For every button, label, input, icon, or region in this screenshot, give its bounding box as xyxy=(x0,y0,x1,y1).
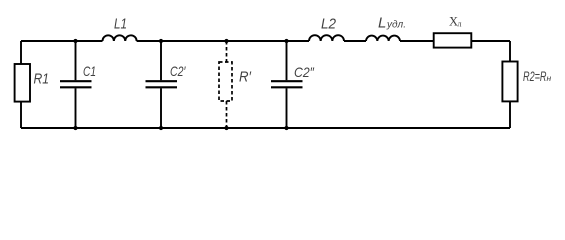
svg-text:R′: R′ xyxy=(239,68,252,85)
svg-text:L2: L2 xyxy=(321,15,337,32)
svg-text:L: L xyxy=(378,15,386,32)
svg-text:C1: C1 xyxy=(83,63,96,79)
svg-text:удл.: удл. xyxy=(386,20,406,31)
svg-text:L1: L1 xyxy=(114,15,127,32)
svg-text:C2′: C2′ xyxy=(170,63,187,79)
svg-text:н: н xyxy=(547,73,552,83)
svg-text:R2=R: R2=R xyxy=(523,68,547,84)
svg-text:C2″: C2″ xyxy=(294,64,315,80)
svg-text:R1: R1 xyxy=(34,70,50,87)
svg-text:л: л xyxy=(458,20,462,29)
